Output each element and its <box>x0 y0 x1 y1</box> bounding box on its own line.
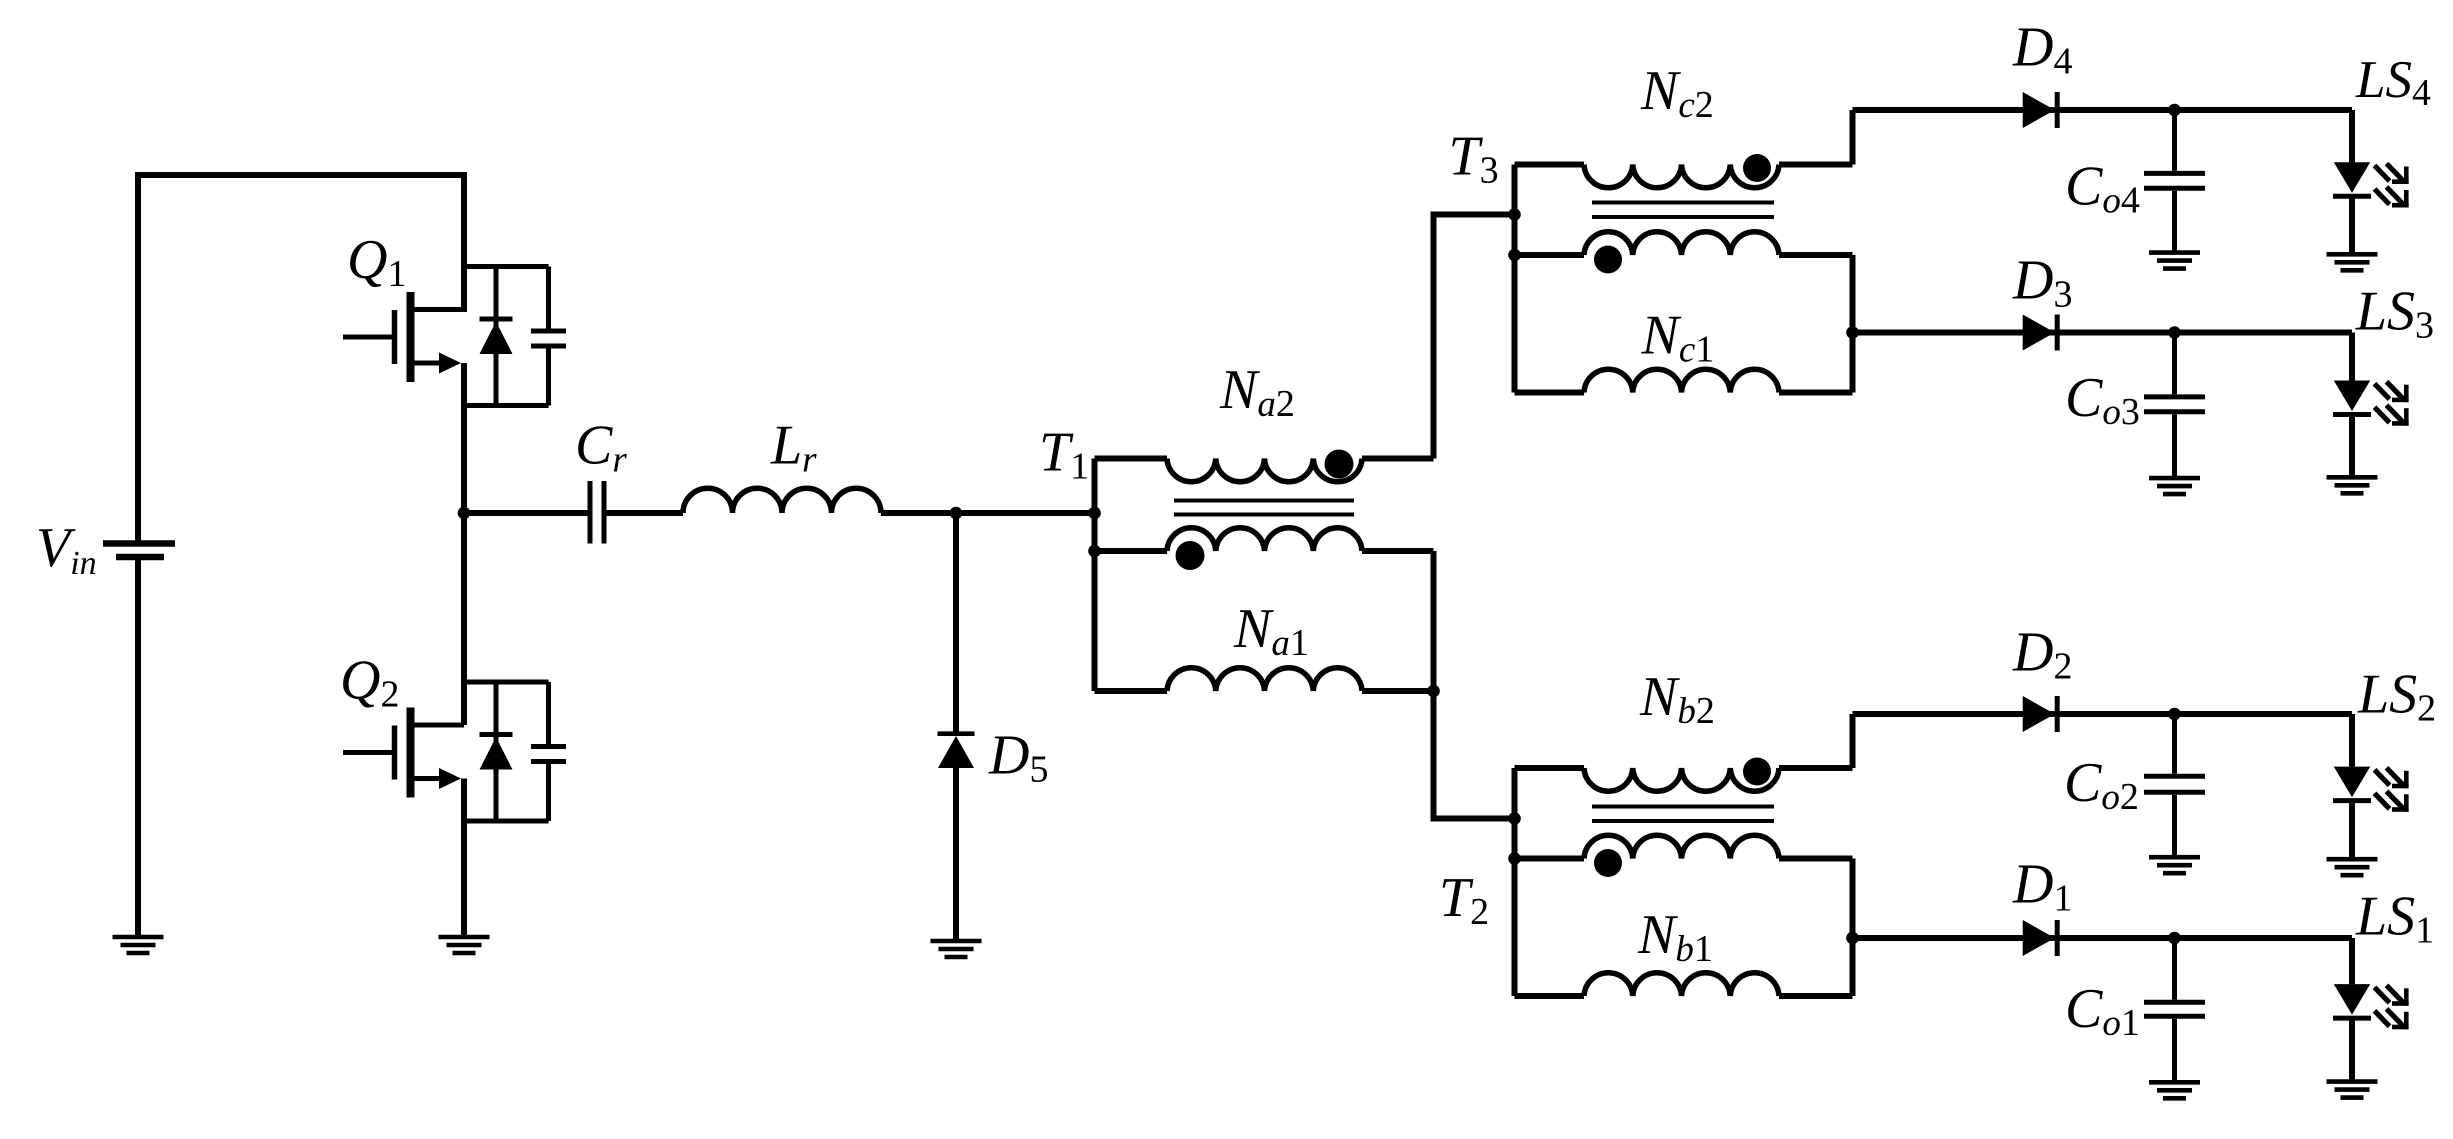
winding Na2 <box>1095 450 1434 482</box>
wire Q1 source to node <box>461 363 467 513</box>
transformer T2 <box>1439 666 1859 996</box>
T3 right vertical <box>1850 255 1856 393</box>
diode D2 <box>2023 696 2058 732</box>
output row 4 <box>1853 17 2431 271</box>
winding T3 secondary <box>1515 232 1853 274</box>
node T2 middle tap <box>1508 852 1521 865</box>
T1 left vertical <box>1092 459 1098 692</box>
diode D3 <box>2023 315 2058 351</box>
winding Nc1 <box>1515 369 1853 392</box>
ground (LS2) <box>2327 859 2378 875</box>
capacitor Cr <box>590 481 604 544</box>
winding T2 secondary <box>1515 835 1853 877</box>
diode D4 <box>2023 92 2058 128</box>
inductor Lr <box>683 488 881 513</box>
node D5 tap <box>950 507 963 520</box>
ground (Co4) <box>2149 253 2200 269</box>
node Co3 tap <box>2168 326 2181 339</box>
wire Q2 drain to node <box>461 513 467 725</box>
ground (Vin) <box>113 937 164 953</box>
wire Lr to node D5 <box>881 510 956 516</box>
capacitor Co3 <box>2144 333 2205 478</box>
node T2 input <box>1508 812 1521 825</box>
ground (LS3) <box>2327 477 2378 493</box>
capacitor Co1 <box>2144 938 2205 1081</box>
ground (Co1) <box>2149 1082 2200 1098</box>
battery Vin <box>103 544 175 558</box>
wire Nb2 up to D2 rail <box>1850 714 1856 768</box>
wire D1 rail <box>1853 935 2353 941</box>
wires Q1 cell top/bottom bars <box>464 267 549 406</box>
wire T1 to T2 <box>1434 551 1515 819</box>
wire node to Cr <box>464 510 588 516</box>
wire D3 rail <box>1853 330 2353 336</box>
diode D5 <box>938 513 975 939</box>
node half-bridge midpoint <box>458 507 471 520</box>
output row 3 <box>1853 250 2435 495</box>
snubber capacitor of Q1 <box>531 267 566 406</box>
ground (Co2) <box>2149 857 2200 873</box>
node Co4 tap <box>2168 104 2181 117</box>
wire node to T1 <box>956 510 1095 516</box>
wire Cr to Lr <box>607 510 684 516</box>
node Na1 right <box>1427 685 1440 698</box>
winding Na1 <box>1095 668 1434 691</box>
transformer T3 <box>1449 60 1859 393</box>
node T3 input <box>1508 208 1521 221</box>
body diode of Q2 <box>480 682 513 821</box>
mosfet Q1 <box>343 292 464 382</box>
node T2 right tap <box>1846 932 1859 945</box>
mosfet Q2 <box>343 708 464 798</box>
wire Q2 source to ground <box>461 779 467 937</box>
snubber capacitor of Q2 <box>531 682 566 821</box>
node T1 input <box>1088 507 1101 520</box>
LED string LS3 <box>2333 333 2409 477</box>
node Co2 tap <box>2168 708 2181 721</box>
wire Vin top to Q1 drain <box>138 175 464 541</box>
winding Nc2 <box>1515 154 1853 188</box>
ground (Q2) <box>439 937 490 953</box>
node T3 right tap <box>1846 326 1859 339</box>
wire D4 rail <box>1853 107 2353 113</box>
node Co1 tap <box>2168 932 2181 945</box>
output row 2 <box>1853 622 2437 876</box>
output row 1 <box>1853 854 2435 1099</box>
ground (LS4) <box>2327 254 2378 270</box>
diode D1 <box>2023 920 2058 956</box>
winding Nb1 <box>1515 973 1853 996</box>
core T3 <box>1592 203 1774 218</box>
wire D2 rail <box>1853 711 2353 717</box>
capacitor Co2 <box>2144 714 2205 856</box>
T2 left vertical <box>1512 768 1518 996</box>
winding Nb2 <box>1515 758 1853 792</box>
wire Vin bottom to ground <box>135 560 141 936</box>
LED string LS4 <box>2333 110 2409 253</box>
wires Q2 cell top/bottom bars <box>464 682 549 821</box>
wire Nc2 up to D4 rail <box>1850 110 1856 165</box>
ground (D5) <box>931 941 982 957</box>
core T2 <box>1592 807 1774 822</box>
LED string LS1 <box>2333 938 2409 1081</box>
node T3 middle tap <box>1508 249 1521 262</box>
transformer T1 <box>1039 215 1515 819</box>
T3 left vertical <box>1512 165 1518 393</box>
core T1 <box>1174 501 1354 515</box>
capacitor Co4 <box>2144 110 2205 252</box>
body diode of Q1 <box>480 267 513 406</box>
LED string LS2 <box>2333 714 2409 858</box>
winding T1 secondary <box>1095 528 1434 570</box>
wire T1 to T3 <box>1434 215 1515 459</box>
ground (LS1) <box>2327 1082 2378 1098</box>
ground (Co3) <box>2149 478 2200 494</box>
node T1 middle tap <box>1088 545 1101 558</box>
T2 right vertical <box>1850 859 1856 997</box>
